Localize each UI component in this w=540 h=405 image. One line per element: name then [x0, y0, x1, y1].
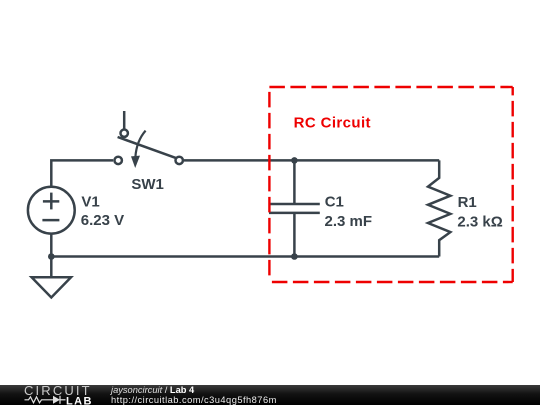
svg-text:C1: C1: [325, 193, 344, 210]
svg-text:2.3 kΩ: 2.3 kΩ: [457, 213, 502, 230]
svg-text:LAB: LAB: [66, 396, 93, 405]
svg-text:6.23 V: 6.23 V: [81, 212, 124, 229]
svg-text:SW1: SW1: [131, 176, 164, 193]
svg-text:R1: R1: [458, 194, 477, 211]
svg-text:2.3 mF: 2.3 mF: [325, 213, 373, 230]
svg-text:V1: V1: [81, 194, 99, 211]
svg-text:RC Circuit: RC Circuit: [294, 115, 371, 132]
